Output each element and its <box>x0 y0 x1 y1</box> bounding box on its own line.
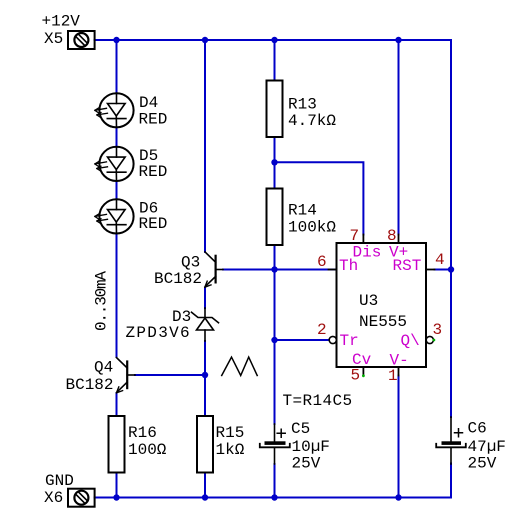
node gnd rail at V- <box>395 494 401 500</box>
wire R13 to R14 node <box>274 137 276 189</box>
wire Dis net <box>275 162 364 234</box>
pin 8 stub <box>398 235 400 244</box>
svg-text:47µF: 47µF <box>468 438 506 456</box>
svg-text:U3: U3 <box>359 292 378 310</box>
pin 7 stub <box>362 235 364 244</box>
wire R16 to gnd <box>116 473 118 498</box>
wire V+ pin8 <box>398 40 400 235</box>
wire Q3 emitter to D3 <box>204 288 206 309</box>
terminal X6 <box>68 489 95 507</box>
node top rail at V+ column <box>395 37 401 43</box>
svg-text:7: 7 <box>350 227 360 245</box>
LED D5 <box>95 147 134 181</box>
LED D4 <box>95 93 134 127</box>
svg-text:100Ω: 100Ω <box>128 441 167 459</box>
svg-text:0..30mA: 0..30mA <box>93 271 111 331</box>
node Th junction <box>271 266 277 272</box>
wire D3 to R15 <box>204 341 206 416</box>
svg-text:R13: R13 <box>288 96 317 114</box>
resistor R14 <box>267 189 283 246</box>
node top rail at LED column <box>113 37 119 43</box>
wire C5 bottom <box>274 464 276 498</box>
svg-text:ZPD3V6: ZPD3V6 <box>126 324 191 342</box>
svg-text:Tr: Tr <box>340 332 359 350</box>
resistor R15 <box>197 416 213 473</box>
svg-text:3: 3 <box>433 321 443 339</box>
svg-text:T=R14C5: T=R14C5 <box>283 392 353 410</box>
svg-text:Q4: Q4 <box>94 359 113 377</box>
svg-text:6: 6 <box>317 253 327 271</box>
wire top rail +12V <box>95 39 451 41</box>
pin 3 bubble <box>426 336 433 343</box>
svg-text:Q3: Q3 <box>181 254 200 272</box>
pin 4 stub <box>426 269 435 271</box>
wire LED column segments <box>116 40 118 357</box>
svg-text:1: 1 <box>388 367 398 385</box>
wire V- pin1 to gnd <box>398 376 400 498</box>
node gnd rail at R15 <box>202 494 208 500</box>
wire right rail <box>450 40 452 498</box>
pin 5 unconnected end marker <box>362 374 365 377</box>
op-amp U1: 555 timer box U3 <box>337 243 427 367</box>
node gnd rail at C5 <box>271 494 277 500</box>
wire R14 to Th column <box>274 245 276 424</box>
svg-text:R16: R16 <box>128 424 157 442</box>
transistor Q3 <box>205 252 223 287</box>
svg-text:D4: D4 <box>139 94 158 112</box>
svg-text:4.7kΩ: 4.7kΩ <box>288 112 336 130</box>
waveform sawtooth symbol <box>222 357 258 375</box>
pin 6 stub <box>329 269 337 271</box>
capacitor C5 <box>260 424 290 464</box>
svg-text:RED: RED <box>139 215 168 233</box>
svg-text:C6: C6 <box>468 420 487 438</box>
node R13/R14/Dis junction <box>271 159 277 165</box>
svg-text:100kΩ: 100kΩ <box>288 219 336 237</box>
svg-text:GND: GND <box>45 472 74 490</box>
svg-text:NE555: NE555 <box>359 313 407 331</box>
terminal X5 <box>68 31 95 49</box>
svg-text:C5: C5 <box>291 420 310 438</box>
svg-text:RED: RED <box>139 163 168 181</box>
wire Q4 emitter to R16 <box>116 393 118 416</box>
svg-text:X5: X5 <box>44 30 63 48</box>
node top rail at Q3 column <box>202 37 208 43</box>
pin 1 stub <box>398 367 400 376</box>
pin 3 unconnected end marker <box>433 339 436 342</box>
node gnd rail at R16 <box>113 494 119 500</box>
pin 5 stub <box>362 367 364 376</box>
svg-text:R14: R14 <box>288 202 317 220</box>
svg-text:5: 5 <box>351 367 361 385</box>
node top rail at R13 column <box>271 37 277 43</box>
wire Th net <box>223 269 337 271</box>
svg-text:25V: 25V <box>292 455 321 473</box>
svg-text:1kΩ: 1kΩ <box>216 441 245 459</box>
node Tr junction <box>271 337 277 343</box>
resistor R16 <box>109 416 125 473</box>
node Q4 base / D3 junction <box>202 372 208 378</box>
svg-text:RED: RED <box>139 111 168 129</box>
svg-text:8: 8 <box>387 227 397 245</box>
svg-text:RST: RST <box>393 257 422 275</box>
svg-text:R15: R15 <box>216 424 245 442</box>
transistor Q4 <box>116 358 135 393</box>
svg-text:+12V: +12V <box>42 13 81 31</box>
svg-text:4: 4 <box>435 251 445 269</box>
wire R15 to gnd <box>204 473 206 498</box>
node RST junction <box>448 266 454 272</box>
svg-text:Th: Th <box>339 257 358 275</box>
svg-text:Q\: Q\ <box>401 332 420 350</box>
wire bottom rail GND <box>95 497 451 499</box>
wire Q4 base to node <box>135 374 205 376</box>
svg-text:BC182: BC182 <box>154 270 202 288</box>
pin 2 bubble <box>329 336 336 343</box>
zener diode D3 <box>192 308 219 341</box>
wire Q3 collector column <box>204 40 206 252</box>
wire RST to right rail <box>435 269 452 271</box>
svg-text:2: 2 <box>317 321 327 339</box>
capacitor C6 <box>436 417 466 464</box>
wire Tr net <box>275 339 329 341</box>
LED D6 <box>95 199 134 233</box>
svg-text:25V: 25V <box>468 455 497 473</box>
resistor R13 <box>267 81 283 138</box>
wire R13 top <box>274 40 276 81</box>
svg-text:X6: X6 <box>44 489 63 507</box>
svg-text:BC182: BC182 <box>66 376 114 394</box>
svg-text:10µF: 10µF <box>292 438 330 456</box>
